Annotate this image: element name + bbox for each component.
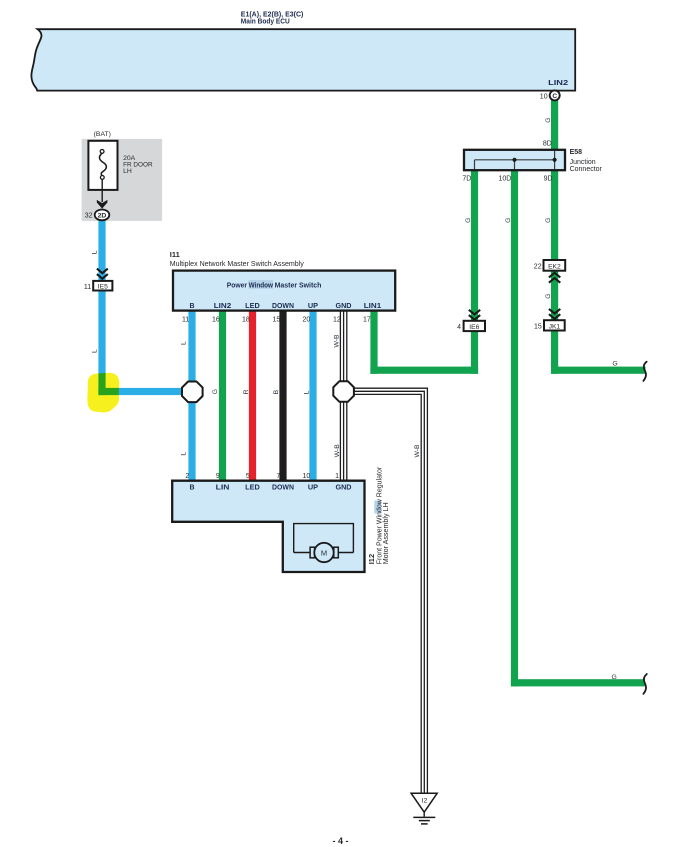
svg-text:LED: LED [245,485,260,492]
svg-text:1: 1 [335,473,339,480]
svg-text:- 4 -: - 4 - [332,836,348,846]
internal wire loop to motor [294,524,354,553]
wire red LED master switch to motor [249,310,256,482]
svg-text:9D: 9D [544,176,553,183]
svg-text:L: L [180,341,187,345]
wire blue UP master switch to motor [309,310,316,482]
chevron pair up into EK2 [549,273,560,283]
svg-text:B: B [189,303,194,310]
svg-text:Connector: Connector [570,166,603,173]
svg-text:GND: GND [336,485,352,492]
squiggle continuation bottom G wire [643,674,646,694]
node octagon junction on GND W-B wire [333,381,354,402]
svg-text:20: 20 [303,316,311,323]
svg-text:M: M [321,548,327,557]
wire green E58 7D down to IE6 and LIN1 joint [471,169,478,374]
svg-text:16: 16 [212,316,220,323]
connector box EK2 pin 22 [544,260,566,271]
fuse value 20A FR DOOR LH [123,155,153,175]
svg-text:G: G [612,360,617,367]
fuse body 20A FR DOOR LH [88,141,117,190]
connector box IE6 pin 4 [464,321,485,331]
svg-text:G: G [545,294,552,299]
svg-text:Window: Window [249,282,274,289]
svg-text:L: L [92,250,99,254]
regulator pin names [189,485,351,492]
svg-text:I12: I12 [367,554,376,564]
node octagon junction on B wire [182,382,203,403]
ground symbol I2 [411,793,437,812]
wire green JK1 down to corner [551,330,558,374]
svg-text:LIN1: LIN1 [364,303,382,310]
svg-text:LIN2: LIN2 [548,80,568,87]
wire blue B master switch to motor [188,310,195,482]
svg-text:R: R [243,389,250,394]
squiggle continuation JK1 G wire [643,362,646,381]
svg-text:8D: 8D [543,141,552,148]
svg-text:GND: GND [336,303,352,310]
wire black DOWN master switch to motor [279,310,286,482]
svg-text:JK1: JK1 [549,323,561,330]
svg-text:IE6: IE6 [469,324,479,331]
svg-text:I11: I11 [170,250,180,259]
svg-text:11: 11 [84,284,91,291]
svg-text:G: G [545,118,552,123]
wire green LIN2 from ECU pin 10(C) to E58 8D [551,98,558,150]
svg-text:EK2: EK2 [548,263,561,270]
svg-text:G: G [505,218,512,223]
svg-text:E1(A), E2(B), E3(C): E1(A), E2(B), E3(C) [241,11,304,18]
wire green E58 10D long run down [511,169,518,686]
svg-text:2: 2 [185,473,189,480]
svg-text:Main Body ECU: Main Body ECU [241,18,290,25]
svg-text:5: 5 [246,473,250,480]
svg-text:IE5: IE5 [98,284,108,291]
wire blue fuse feed vertical [98,219,105,395]
svg-text:C: C [552,93,557,100]
svg-text:Master Switch: Master Switch [275,282,322,289]
regulator pin numbers [185,473,339,480]
svg-text:G: G [212,389,219,394]
component box I11 Power Window Master Switch [173,271,395,311]
svg-text:17: 17 [363,316,371,323]
wire green LIN1 from master switch down [370,310,377,374]
svg-text:10D: 10D [498,176,511,183]
svg-text:10: 10 [303,473,311,480]
wire green JK1 horizontal to G squiggle [551,367,646,374]
wire green 10D horizontal to G squiggle [511,679,645,686]
svg-text:G: G [465,218,472,223]
chevron pair into IE6 [469,310,480,320]
svg-text:G: G [545,218,552,223]
svg-text:L: L [92,349,99,353]
svg-text:UP: UP [308,303,319,310]
connector box IE5 pin 11 [93,281,112,291]
wire color letters rotated [92,118,553,458]
svg-text:7D: 7D [462,176,471,183]
svg-text:E58: E58 [570,149,583,156]
svg-text:Multiplex Network Master Switc: Multiplex Network Master Switch Assembly [170,261,304,268]
wire green LIN2 master switch to motor LIN [219,310,226,482]
svg-text:LIN2: LIN2 [214,303,232,310]
svg-text:10: 10 [540,93,548,100]
wire W-B branch right from octagon then down to ground I2 [354,388,428,793]
motor M [310,547,315,558]
svg-text:18: 18 [242,316,250,323]
svg-text:(BAT): (BAT) [94,131,111,138]
I12 rotated labels [374,501,381,514]
wire green EK2 to JK1 [551,270,558,321]
svg-text:Power: Power [227,282,248,289]
svg-text:12: 12 [333,316,341,323]
svg-text:W-B: W-B [414,444,421,458]
svg-text:15: 15 [534,323,542,330]
master switch pin names [189,303,381,310]
E58 internal bus [475,151,555,169]
svg-text:L: L [180,452,187,456]
svg-text:11: 11 [182,316,189,323]
svg-text:DOWN: DOWN [272,303,294,310]
svg-text:15: 15 [273,316,281,323]
svg-text:Junction: Junction [570,159,596,166]
ECU pin 10 circle C [550,90,560,100]
svg-text:32: 32 [85,213,93,220]
svg-text:I2: I2 [422,798,428,805]
svg-text:B: B [189,485,194,492]
chevron pair into IE5 [97,269,108,279]
svg-text:LED: LED [245,303,260,310]
wire blue fuse feed horizontal to octagon junction [98,388,192,395]
highlight on word Window [249,280,273,289]
svg-text:LH: LH [123,168,132,175]
svg-text:Motor Assembly LH: Motor Assembly LH [383,502,390,564]
svg-text:4: 4 [457,324,461,331]
component box I12 regulator (L-shape) [172,481,364,572]
ECU header text [241,11,304,25]
svg-text:B: B [273,389,280,394]
fuse gray panel [82,139,163,221]
yellow highlighter blob over blue corner [87,373,119,413]
wire green E58 9D down to EK2 [551,169,558,261]
svg-text:W-B: W-B [334,444,341,458]
wire W-B GND master switch to motor (3-line) [340,310,346,481]
title Power Window Master Switch [227,282,322,289]
wire green LIN1 horizontal joint to 7D wire [370,367,478,374]
svg-text:2D: 2D [98,212,107,219]
chevron pair down into JK1 [549,309,560,319]
svg-text:UP: UP [308,485,319,492]
svg-text:W-B: W-B [334,334,341,348]
svg-text:DOWN: DOWN [272,485,294,492]
svg-text:L: L [303,390,310,394]
connector oval 2D [95,210,110,221]
svg-text:G: G [612,674,617,681]
svg-text:LIN: LIN [216,485,230,492]
junction connector E58 box [464,150,565,170]
svg-text:7: 7 [276,473,280,480]
svg-text:22: 22 [534,263,542,270]
fuse arrow down to 2D [101,179,103,202]
svg-text:9: 9 [216,473,220,480]
connector box JK1 pin 15 [544,320,565,330]
ECU box E1(A),E2(B),E3(C) Main Body ECU [31,29,575,90]
master switch pin numbers [182,316,371,323]
